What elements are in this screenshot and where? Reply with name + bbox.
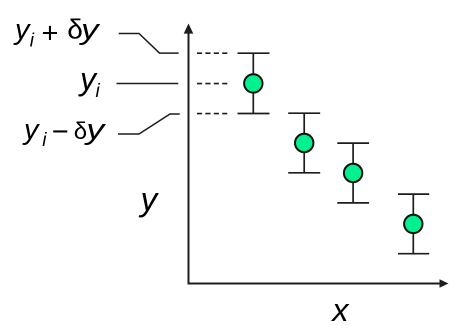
error bar point 4 [398,194,429,254]
svg-text:+: + [42,18,59,50]
svg-text:y: y [22,114,40,146]
dashed line y_i - dy [197,113,229,115]
data point 1 [244,74,262,92]
error bar point 3 [337,143,369,203]
error bar point 2 [288,113,320,173]
svg-text:y: y [84,114,106,146]
leader line for y_i - dy [118,114,180,134]
data point 3 [344,164,362,182]
data point 4 [404,215,422,233]
leader line for y_i [117,83,179,85]
dashed line y_i [197,83,229,85]
error bar point 1 [238,53,270,113]
label y_i [78,61,101,102]
y-axis [184,24,194,285]
leader line for y_i + dy [119,34,179,54]
svg-text:−: − [52,116,69,148]
svg-text:y: y [79,14,101,46]
dashed line y_i + dy [197,52,229,54]
label y_i + dy [13,14,100,52]
svg-text:x: x [330,292,350,328]
svg-text:y: y [13,14,31,46]
x-axis [188,279,449,288]
svg-text:δ: δ [74,118,87,145]
label y_i - dy [22,114,106,151]
data point 2 [295,134,313,152]
svg-text:y: y [139,182,160,219]
